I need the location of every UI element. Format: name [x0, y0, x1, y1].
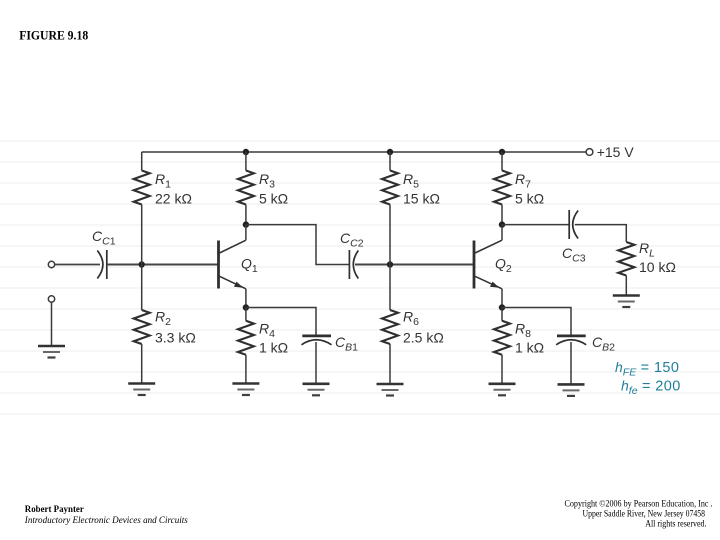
svg-text:Copyright ©2006 by Pearson Edu: Copyright ©2006 by Pearson Education, In…	[565, 498, 713, 509]
ground input	[38, 346, 65, 358]
wire CB2 to ground	[570, 342, 572, 384]
node base of Q1	[139, 261, 145, 267]
svg-text:Robert Paynter: Robert Paynter	[25, 504, 85, 515]
wire R7 node to CC3	[502, 224, 569, 226]
wire CB1 to ground	[315, 342, 317, 384]
capacitor CB1	[302, 334, 359, 354]
resistor R3 5 k	[238, 152, 288, 225]
ground under CB2	[558, 384, 585, 396]
transistor Q2	[474, 225, 512, 308]
svg-text:Introductory Electronic Device: Introductory Electronic Devices and Circ…	[24, 515, 188, 526]
input lower terminal	[48, 296, 54, 302]
svg-text:1 kΩ: 1 kΩ	[515, 340, 544, 356]
resistor R5 15 k	[382, 152, 440, 265]
svg-text:+15 V: +15 V	[597, 144, 635, 160]
wire Q2 emitter to CB2	[502, 308, 571, 336]
svg-text:FIGURE 9.18: FIGURE 9.18	[19, 28, 88, 43]
wire R3 node to CC2	[246, 225, 349, 265]
resistor R7 5 k	[494, 152, 544, 225]
ground under R6	[377, 384, 404, 396]
svg-text:All rights reserved.: All rights reserved.	[645, 519, 706, 529]
resistor R1 22 k	[134, 152, 192, 265]
svg-text:15 kΩ: 15 kΩ	[403, 191, 440, 207]
resistor R4 1 k	[238, 308, 288, 384]
wire Q1 emitter to CB1	[246, 308, 316, 336]
node collector Q1	[243, 221, 249, 227]
wire CC2 to Q2 base	[355, 264, 474, 266]
ground under R8	[489, 384, 516, 396]
input terminal	[48, 261, 54, 267]
capacitor CC1	[92, 228, 116, 279]
svg-text:5 kΩ: 5 kΩ	[515, 191, 544, 207]
ground under R4	[232, 384, 259, 396]
wire lower terminal to ground	[51, 302, 53, 346]
node base of Q2	[387, 261, 393, 267]
power terminal +15 V	[586, 144, 634, 160]
svg-text:10 kΩ: 10 kΩ	[639, 259, 676, 275]
wire top supply rail	[142, 151, 586, 153]
node top rail above R7	[499, 149, 505, 155]
load resistor RL 10 k	[618, 240, 676, 296]
node collector Q2	[499, 221, 505, 227]
svg-text:3.3 kΩ: 3.3 kΩ	[155, 330, 196, 346]
footer copyright	[565, 498, 713, 529]
wire CC3 to RL	[575, 225, 627, 242]
svg-text:5 kΩ: 5 kΩ	[259, 191, 288, 207]
ground under R2	[128, 384, 155, 396]
svg-text:1 kΩ: 1 kΩ	[259, 340, 288, 356]
transistor Q1	[219, 225, 258, 308]
node top rail above R5	[387, 149, 393, 155]
wire CC1 to Q1 base	[107, 264, 218, 266]
resistor R2 3.3 k	[134, 265, 196, 384]
svg-text:Upper Saddle River, New Jersey: Upper Saddle River, New Jersey 07458	[583, 509, 706, 519]
capacitor CC2	[340, 230, 364, 279]
wire input to CC1	[55, 264, 100, 266]
node emitter Q1	[243, 304, 249, 310]
resistor R8 1 k	[494, 308, 544, 384]
svg-text:2.5 kΩ: 2.5 kΩ	[403, 330, 444, 346]
capacitor CB2	[556, 334, 615, 354]
svg-text:22 kΩ: 22 kΩ	[155, 191, 192, 207]
node top rail above R3	[243, 149, 249, 155]
ground under CB1	[303, 384, 330, 396]
resistor R6 2.5 k	[382, 265, 444, 385]
capacitor CC3	[562, 210, 586, 265]
node emitter Q2	[499, 304, 505, 310]
ground under RL	[613, 296, 640, 308]
